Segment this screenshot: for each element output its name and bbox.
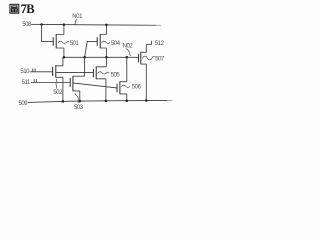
svg-text:505: 505 xyxy=(111,72,121,78)
junction bottom/Q505 xyxy=(105,100,108,103)
svg-text:506: 506 xyxy=(132,85,142,91)
leader N01 xyxy=(75,19,77,25)
transistor Q503 xyxy=(70,76,84,101)
svg-text:503: 503 xyxy=(74,105,84,111)
wire node-A vertical xyxy=(84,57,86,76)
junction top-rail/T504 drain xyxy=(105,24,108,27)
leader 504 xyxy=(102,41,111,43)
svg-text:502: 502 xyxy=(53,90,63,96)
leader 507 xyxy=(142,56,154,60)
junction mid/T506 xyxy=(126,56,129,59)
leader 506 xyxy=(121,85,130,87)
title 圖7B xyxy=(10,2,34,16)
transistor Q501 xyxy=(53,25,64,58)
wire Q503 to Q506 gate xyxy=(73,83,117,88)
leader 502 xyxy=(55,79,58,89)
junction mid/T504-T505 xyxy=(105,56,108,59)
svg-text:511: 511 xyxy=(22,80,31,86)
svg-text:N02: N02 xyxy=(123,44,134,50)
wire T501 gate feed xyxy=(42,24,53,41)
svg-text:508: 508 xyxy=(22,22,32,28)
svg-text:7B: 7B xyxy=(21,2,35,16)
junction bottom/Q507 xyxy=(145,99,148,102)
svg-text:510: 510 xyxy=(20,69,30,75)
leader 505 xyxy=(98,72,110,74)
wire T504 gate feed xyxy=(85,41,97,57)
svg-text:501: 501 xyxy=(70,41,80,47)
transistor Q506 xyxy=(117,57,127,101)
junction bottom/Q506 xyxy=(126,99,129,102)
junction bottom/Q503 xyxy=(79,100,82,103)
transistor Q504 xyxy=(97,25,106,57)
svg-text:512: 512 xyxy=(155,41,165,47)
junction mid/node wire xyxy=(83,56,86,59)
junction top-rail/T501 drain xyxy=(63,23,66,26)
junction bottom/Q502 xyxy=(62,100,65,103)
transistor Q505 xyxy=(93,57,106,101)
leader N02 xyxy=(126,49,131,57)
leader 503 xyxy=(75,94,79,104)
junction top-rail/508 xyxy=(40,23,43,26)
svg-text:504: 504 xyxy=(111,41,121,47)
svg-text:509: 509 xyxy=(19,101,29,107)
wire 511 line xyxy=(31,82,70,84)
wire node-A cross (T505 gate) xyxy=(56,72,93,74)
wire mid rail (node N01/N02) xyxy=(64,56,138,58)
svg-text:507: 507 xyxy=(155,56,165,62)
leader 501 xyxy=(58,41,70,43)
terminal 512 tick xyxy=(151,41,153,45)
wire output 512 xyxy=(146,43,151,45)
svg-text:N01: N01 xyxy=(72,14,83,20)
wire 508 lead xyxy=(31,23,41,25)
transistor Q502 xyxy=(53,57,63,101)
wire top rail (node 508) xyxy=(42,23,156,26)
wire 510 line xyxy=(30,71,53,73)
wire bottom rail (node 509) xyxy=(28,100,167,102)
tick marks 510 xyxy=(33,69,35,72)
tick marks 511 xyxy=(34,79,36,82)
junction mid/T501 xyxy=(63,56,66,59)
transistor Q507 xyxy=(139,44,147,100)
